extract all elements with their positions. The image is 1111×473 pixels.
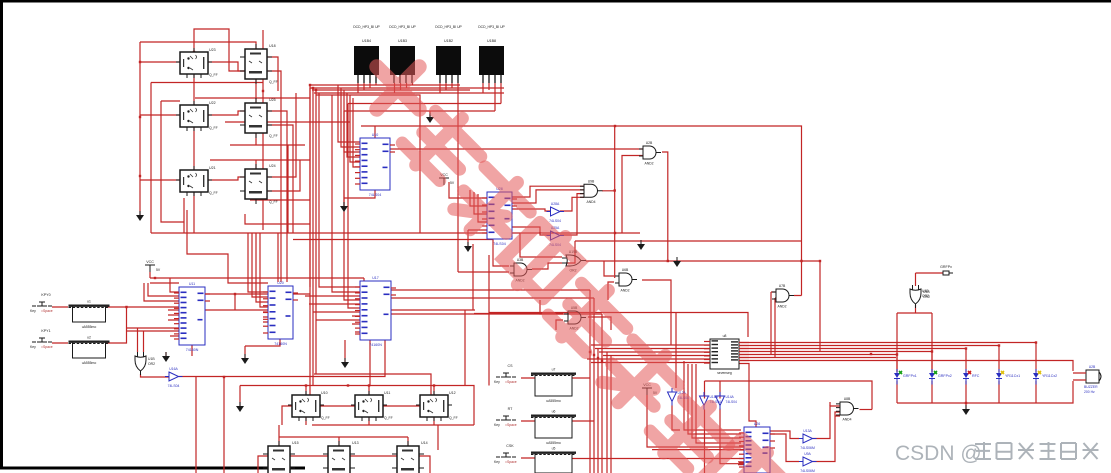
svg-text:74160N: 74160N	[274, 342, 287, 346]
svg-text:u2: u2	[87, 336, 91, 340]
svg-text:U17: U17	[372, 276, 379, 280]
svg-text:U21: U21	[209, 166, 216, 170]
svg-text:AND2: AND2	[620, 289, 629, 293]
svg-text:U2B: U2B	[646, 141, 653, 145]
svg-text:DCD_HP3_BI UP: DCD_HP3_BI UP	[389, 25, 416, 29]
svg-text:74160N: 74160N	[186, 348, 199, 352]
svg-text:74160N: 74160N	[369, 343, 382, 347]
svg-text:Key: Key	[494, 380, 500, 384]
svg-text:Q_FF: Q_FF	[321, 416, 330, 420]
svg-text:uA555mo: uA555mo	[82, 361, 97, 365]
svg-text:Q_FF: Q_FF	[384, 416, 393, 420]
svg-text:u7: u7	[552, 368, 556, 372]
svg-text:DCD_HP3_BI UP: DCD_HP3_BI UP	[353, 25, 380, 29]
svg-text:74LS06M: 74LS06M	[800, 446, 815, 450]
svg-text:=Space: =Space	[41, 309, 53, 313]
svg-text:GRFPx1: GRFPx1	[903, 374, 917, 378]
svg-text:U9A: U9A	[804, 452, 811, 456]
svg-text:U1B4: U1B4	[362, 39, 371, 43]
svg-text:RT: RT	[508, 407, 514, 411]
svg-text:U11: U11	[189, 282, 195, 286]
svg-text:Q_FF: Q_FF	[269, 200, 278, 204]
svg-text:U1B8: U1B8	[487, 39, 496, 43]
svg-text:BUZZER: BUZZER	[1084, 385, 1098, 389]
svg-text:YR11Cx1: YR11Cx1	[1005, 374, 1020, 378]
svg-text:U6B: U6B	[622, 268, 629, 272]
svg-text:Q_FF: Q_FF	[269, 134, 278, 138]
svg-text:74LS04: 74LS04	[168, 384, 180, 388]
svg-text:YR11Cx2: YR11Cx2	[1042, 374, 1057, 378]
svg-text:5V: 5V	[450, 181, 455, 185]
svg-text:VCC: VCC	[146, 260, 154, 264]
svg-text:U14A: U14A	[726, 395, 735, 399]
svg-text:Q_FF: Q_FF	[209, 73, 218, 77]
svg-text:U11: U11	[384, 391, 390, 395]
svg-text:74LS04: 74LS04	[493, 242, 505, 246]
svg-text:Key: Key	[494, 423, 500, 427]
svg-text:Key: Key	[30, 309, 36, 313]
svg-text:200 Hz: 200 Hz	[1084, 390, 1095, 394]
svg-text:AND4: AND4	[586, 200, 595, 204]
svg-text:=Space: =Space	[505, 460, 517, 464]
svg-text:74LS06M: 74LS06M	[800, 469, 815, 473]
svg-text:KPY1: KPY1	[41, 329, 50, 333]
svg-text:Q_FF: Q_FF	[269, 80, 278, 84]
svg-text:uA555mo: uA555mo	[546, 441, 561, 445]
svg-text:U23: U23	[209, 48, 216, 52]
svg-text:=Space: =Space	[505, 380, 517, 384]
svg-text:U14: U14	[421, 441, 428, 445]
svg-text:=Space: =Space	[41, 345, 53, 349]
svg-text:U1B: U1B	[148, 357, 155, 361]
svg-text:U24: U24	[269, 164, 276, 168]
svg-text:Key: Key	[30, 345, 36, 349]
svg-text:U10: U10	[321, 391, 328, 395]
svg-text:U13A: U13A	[803, 429, 812, 433]
svg-text:u8: u8	[723, 334, 727, 338]
svg-text:U26: U26	[754, 422, 761, 426]
svg-text:GRFPx2: GRFPx2	[938, 374, 952, 378]
svg-text:U13: U13	[352, 441, 359, 445]
svg-text:U25: U25	[269, 98, 276, 102]
svg-text:U20: U20	[277, 281, 284, 285]
svg-text:RFC: RFC	[972, 374, 980, 378]
svg-text:U10: U10	[372, 133, 379, 137]
svg-text:KPY0: KPY0	[41, 293, 50, 297]
svg-text:U9B: U9B	[588, 179, 595, 183]
svg-text:U15: U15	[292, 441, 299, 445]
svg-text:U12: U12	[449, 391, 456, 395]
svg-text:U4B: U4B	[922, 289, 929, 293]
svg-text:Q_FF: Q_FF	[209, 126, 218, 130]
svg-text:OR2: OR2	[922, 294, 929, 298]
svg-text:74LS04: 74LS04	[726, 400, 738, 404]
svg-text:U22: U22	[209, 101, 216, 105]
svg-text:u1: u1	[87, 300, 91, 304]
svg-text:Key: Key	[494, 460, 500, 464]
svg-text:sevenseg: sevenseg	[717, 371, 732, 375]
svg-text:GRFPx: GRFPx	[940, 265, 952, 269]
svg-text:u6: u6	[552, 410, 556, 414]
svg-text:U2B: U2B	[1089, 365, 1096, 369]
svg-text:=Space: =Space	[505, 423, 517, 427]
svg-text:Q_FF: Q_FF	[449, 416, 458, 420]
svg-text:u5: u5	[552, 447, 556, 451]
svg-text:U7B: U7B	[779, 284, 786, 288]
svg-text:DCD_HP3_BI UP: DCD_HP3_BI UP	[435, 25, 462, 29]
svg-text:OR2: OR2	[148, 362, 155, 366]
svg-text:uA555mo: uA555mo	[82, 325, 97, 329]
svg-text:U1B2: U1B2	[444, 39, 453, 43]
svg-text:74LS04: 74LS04	[369, 193, 381, 197]
svg-text:U1B3: U1B3	[398, 39, 407, 43]
svg-text:U3B: U3B	[517, 258, 524, 262]
svg-text:AND4: AND4	[842, 418, 851, 422]
svg-text:U8B: U8B	[844, 397, 851, 401]
svg-text:uA555mo: uA555mo	[546, 399, 561, 403]
svg-text:CS: CS	[508, 364, 514, 368]
svg-text:CSDN @: CSDN @	[895, 442, 982, 465]
svg-text:U16A: U16A	[169, 367, 178, 371]
svg-text:AND2: AND2	[644, 162, 653, 166]
svg-text:AND2: AND2	[777, 305, 786, 309]
svg-text:U18: U18	[269, 44, 276, 48]
svg-text:CSK: CSK	[506, 444, 514, 448]
svg-text:74LS04: 74LS04	[549, 219, 561, 223]
svg-text:5V: 5V	[156, 268, 161, 272]
svg-text:U28A: U28A	[551, 202, 560, 206]
svg-text:DCD_HP3_BI UP: DCD_HP3_BI UP	[478, 25, 505, 29]
svg-text:Q_FF: Q_FF	[209, 191, 218, 195]
